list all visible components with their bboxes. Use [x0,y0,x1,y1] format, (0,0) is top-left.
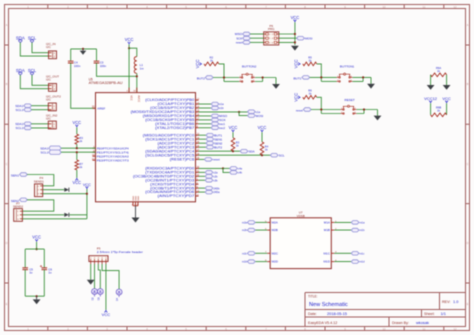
wire SDA to I2C_IN [20,43,48,57]
svg-text:osc2: osc2 [219,126,225,130]
net label 24Db [205,186,213,190]
wire PB7 [199,127,212,129]
net label 24Da [205,190,213,194]
svg-text:MOSI: MOSI [256,114,264,118]
wire P6 pin6 [279,41,295,43]
net label c1a [211,102,219,106]
svg-text:1u: 1u [29,271,33,275]
wire m2d [255,261,267,263]
net label osc1 [211,122,219,126]
wire BUT2 row1 [213,77,239,79]
wire P6 pin4 MOSI [279,37,297,39]
node SCL1 pullup [76,151,78,153]
svg-text:VCC: VCC [291,15,300,20]
svg-text:D: D [5,241,7,245]
svg-text:New Schematic: New Schematic [309,302,348,308]
wire VCC to R4 [261,132,263,142]
wire VCC to R3b [232,132,234,138]
svg-text:VCC: VCC [293,59,298,68]
wire BUT2 [199,146,207,148]
wire PB2 [199,107,212,109]
node PB3 [238,111,240,113]
pins GND (3,5,21) [132,196,141,207]
svg-text:M1C: M1C [324,251,331,255]
svg-text:I2C: I2C [46,78,52,82]
net label reset [204,158,212,162]
pin M2A (5) [265,221,278,225]
wire SCL1 to R7 [76,152,78,160]
pin PC2 (25) [158,141,200,145]
svg-text:M1B: M1B [324,228,330,232]
pin PC6 (29) [170,157,200,161]
svg-text:(XTAL2/TOSC2)PB7: (XTAL2/TOSC2)PB7 [155,126,194,130]
pin PB6 (7) [155,122,198,126]
node BUT2 [223,76,225,78]
net label c4a [230,167,238,171]
net label m1b [351,228,359,232]
svg-text:11: 11 [423,327,426,331]
svg-text:BUTTON1: BUTTON1 [340,64,355,68]
net label c3b [205,178,213,182]
wire SEN2 [199,142,207,144]
wire SDA1 to I2C_IN2 [31,123,48,125]
connector P5 header [89,247,143,264]
pin PE1 (6) [93,150,129,154]
pin PB1 (13) [158,102,200,106]
svg-text:c4b: c4b [238,172,243,175]
svg-text:10: 10 [382,327,386,331]
svg-text:1.0: 1.0 [453,299,459,304]
wire R3 to SDA1 [76,144,78,148]
svg-text:SCL: SCL [279,153,285,157]
wire VCC to R3 [76,127,78,134]
svg-text:VCC: VCC [129,95,133,101]
svg-text:AREF: AREF [97,107,105,111]
node SDA1 pullup [76,147,78,149]
wire PB5 [199,119,212,121]
pin PE0 (3) [93,146,129,150]
resistor R3b vertical [231,138,235,151]
ground P6 [291,46,299,51]
svg-text:D3: D3 [97,297,100,301]
svg-text:SEND2: SEND2 [13,205,23,209]
svg-text:24Da: 24Da [214,191,221,194]
wire PD6 [199,191,206,193]
pin PD3 (1) [145,178,198,182]
wire m1c [334,252,351,254]
ground R6A right [443,85,451,90]
connector I2C_IN2 [46,113,58,129]
connector I2C_IN [46,42,57,59]
svg-text:SEND1: SEND1 [34,179,44,183]
node BUTTON2 right [262,76,264,78]
svg-text:BUT1: BUT1 [293,77,301,81]
node BUTTON1 right [362,76,364,78]
wire SEND2 pin2 to diode [22,214,64,216]
svg-text:Drawn By:: Drawn By: [392,321,409,325]
svg-text:wkosak: wkosak [416,320,429,325]
wire BUT1 row1 [310,76,337,78]
svg-text:M1A: M1A [324,221,330,225]
node PD0 [222,167,224,169]
svg-text:VCC: VCC [195,59,200,68]
power flag VCC P5 [105,310,108,313]
svg-text:VCC: VCC [229,125,238,130]
svg-text:VCC: VCC [32,235,41,240]
svg-text:(AIN1/PTCXY)PD7: (AIN1/PTCXY)PD7 [158,194,195,198]
pin PB2 (14) [150,106,200,110]
wire SEN1 [27,175,54,186]
net label MOSI P6 [297,36,305,40]
wire to m1a label [239,111,247,113]
wire P5 pin2 [94,264,96,289]
connector P6 PRG [264,24,279,45]
wire P5 pin3 [98,264,100,289]
pin M2B (6) [265,228,278,232]
svg-text:m1b: m1b [360,229,365,232]
svg-text:I2C: I2C [46,116,52,120]
svg-text:EasyEDA V5.4.12: EasyEDA V5.4.12 [308,321,337,325]
net label SDA [240,149,248,153]
wire P6 pin2 [279,33,295,35]
node top bus [82,48,84,50]
svg-text:M2D: M2D [272,260,279,264]
svg-text:osc1: osc1 [219,122,225,126]
wire P6 VCC/GND vertical [294,22,296,45]
wire R6A left lead [430,75,432,85]
wire PB6 [199,123,212,125]
wire C3 to AVCC node [97,63,137,76]
resistor R4 vertical [260,142,264,155]
net label BUT1 [206,133,214,137]
svg-text:C: C [5,162,7,166]
wire BUT2 row2 [224,81,239,83]
capacitor C5 [22,267,28,269]
node SCL pullup [261,154,263,156]
pin PE3 (22) [92,158,129,162]
wire reset row2 [321,113,340,115]
svg-text:PRG: PRG [268,27,275,31]
wire VCC stub [36,242,38,249]
wire SCL1 to I2C_OUT2 [31,109,48,111]
svg-text:reset: reset [213,158,220,162]
svg-text:12: 12 [197,98,200,101]
wire m1d [334,261,351,263]
resistor R5 [303,62,317,66]
svg-text:BUT2: BUT2 [197,77,205,81]
svg-text:100n: 100n [100,64,107,68]
ground MCU [135,206,137,218]
svg-text:REV:: REV: [442,300,450,304]
net label MISO [211,114,219,118]
wire SDA to I2C_OUT [20,75,48,89]
svg-text:I2C: I2C [46,98,52,102]
wire top cap bus [71,48,97,50]
wire VCC to L1 [129,48,137,56]
svg-text:A: A [467,23,469,27]
svg-text:SCL1: SCL1 [16,108,24,112]
LED D4 [116,289,122,301]
wire diode2 out [70,214,87,216]
net label c1b [211,106,219,110]
LED D2 [92,289,98,301]
node RESET right [363,108,365,110]
pin PC3 (26) [158,145,200,149]
wire R6 to reset node [317,97,322,113]
net label m1c [351,252,359,256]
wire R6B left lead [430,103,432,115]
resistor R7 vertical [75,160,79,170]
net label c2a [205,171,213,175]
wire to c4b [223,168,230,172]
pin PB0 (12) [145,98,200,102]
svg-text:VCC: VCC [72,180,81,185]
svg-text:VCC: VCC [293,93,298,102]
title block [305,293,466,327]
svg-text:E: E [467,302,469,306]
pin M1B (2) [324,228,337,232]
svg-text:VCC: VCC [258,125,267,130]
wire BUT1 [199,134,207,136]
wire C6 lower [43,270,45,297]
pin PC1 (24) [145,137,200,141]
svg-text:BUTTON2: BUTTON2 [242,64,257,68]
svg-text:m1d: m1d [360,261,365,264]
ground BUTTON1 [367,84,375,89]
connector I2C_OUT [46,75,59,92]
wire PD5 [199,187,206,189]
ground RESET [374,116,382,121]
svg-text:VCC: VCC [72,120,81,125]
svg-text:SEN1: SEN1 [11,173,19,177]
svg-text:reset: reset [296,109,303,113]
svg-text:1/1: 1/1 [441,311,446,316]
svg-text:RESET: RESET [345,98,355,102]
svg-text:VCC: VCC [125,37,134,42]
wire SCL row [199,154,271,156]
svg-text:2018-05-15: 2018-05-15 [327,311,347,316]
connector I2C_OUT2 [46,95,61,112]
net label SEN2 [206,141,214,145]
pin PD2 (32) [133,174,200,178]
wire R6B right lead [446,103,448,115]
wire C6 upper [43,249,45,267]
connector P4 SEND1 [34,176,44,196]
pin M1D (4) [324,260,338,264]
pin PC4 (27) [145,149,200,153]
pin M1C (3) [324,251,338,255]
svg-text:VDSB: VDSB [297,214,305,218]
wire SCL1 to I2C_IN2 [31,127,48,129]
wire cap bottom bus [25,295,44,297]
svg-text:BUT2: BUT2 [214,145,222,149]
wire BUTTON2 right [255,78,276,85]
svg-text:M2A: M2A [272,221,278,225]
svg-text:E: E [6,302,8,306]
svg-text:24Db: 24Db [214,187,221,190]
svg-text:B: B [6,82,8,86]
svg-text:c1b: c1b [219,106,224,110]
svg-text:B: B [467,82,469,86]
svg-text:AVCC: AVCC [137,95,141,102]
pin AVCC top (18) [136,88,138,93]
connector SEND2 [13,202,23,222]
pin PB5 (17) [145,118,200,122]
wire reset [250,41,264,43]
LED D3 [97,289,103,301]
svg-text:D4: D4 [116,297,119,301]
svg-text:SCK: SCK [219,118,226,122]
wire SEND1 pin2 to diode [43,189,65,191]
wire m2b [255,229,267,231]
svg-text:m1a: m1a [360,222,365,225]
pin PD7 (11) [158,194,200,198]
diode D SEND1 [64,188,69,192]
node C5C6 bottom [36,295,38,297]
wire BUT1 row2 [321,80,336,82]
svg-text:D: D [466,241,468,245]
svg-text:SCL1: SCL1 [41,151,49,155]
pin M1A (1) [324,221,337,225]
wire C5 lower [24,270,26,297]
wire m2c [255,252,267,254]
pin M2C (7) [265,251,279,255]
pin PC5 (28) [145,153,200,157]
wire to c4a [223,167,230,169]
pin PC0 (23) [143,133,200,137]
svg-text:D2: D2 [92,297,95,301]
wire m1b [334,229,351,231]
power flag VCC below R7 [75,178,78,181]
wire C3 upper [96,49,98,61]
svg-text:m2b: m2b [242,229,247,232]
wire R6A right lead [446,75,448,85]
svg-text:ATMEGA328PB-AU: ATMEGA328PB-AU [89,81,124,85]
pin PD0 (30) [145,166,200,170]
svg-text:reset: reset [236,41,243,45]
node BUT1 [320,76,322,78]
pin VCC top (4) [128,88,130,93]
net label c2b [205,175,213,179]
svg-text:c2a: c2a [214,171,219,174]
pin PD4 (2) [150,182,198,186]
node SEND1 [86,193,88,195]
net label SEN1 [206,137,214,141]
node SDA pullup [232,150,234,152]
svg-text:M1D: M1D [324,260,331,264]
pin PD6 (10) [145,190,200,194]
svg-text:11: 11 [197,194,200,197]
pin PE2 (19) [92,154,129,158]
node L1 bottom [136,75,138,77]
wire PB4 [199,115,212,117]
wire SCL1 row [61,151,95,153]
pin PB3 (15) [131,110,200,114]
inductor L1 [134,57,144,74]
svg-text:SCL1: SCL1 [16,126,24,130]
svg-text:M2C: M2C [272,251,279,255]
capacitor C6 [42,267,48,269]
svg-text:12: 12 [453,327,457,331]
svg-text:12: 12 [453,5,457,9]
wire reset PC6 [199,158,205,160]
svg-text:m2c: m2c [242,252,247,255]
wire PD2 [199,175,206,177]
ground R6A left [427,85,435,90]
net label c4b [230,171,238,175]
wire R5 to BUT1 node [317,64,322,82]
net label m1a [248,110,256,114]
svg-text:10: 10 [382,5,386,9]
svg-text:m1c: m1c [360,252,365,255]
pin M2D (8) [265,260,279,264]
wire SDA1 row [61,147,95,149]
pin PB7 (8) [155,125,198,129]
wire L1 to AVCC pin [136,73,138,92]
svg-text:100n: 100n [74,64,81,68]
svg-text:Sheet:: Sheet: [424,312,435,316]
svg-text:Date:: Date: [308,312,317,316]
wire C4 upper [70,49,72,61]
wire VCC stub top [128,44,130,48]
svg-text:SDA: SDA [249,149,255,153]
svg-text:1m: 1m [140,66,145,70]
net label SCL [270,153,278,157]
svg-text:c3b: c3b [214,179,219,182]
capacitor C4 [68,60,74,62]
wire to MOSI label [239,112,247,116]
svg-text:VCC12: VCC12 [424,96,438,101]
svg-text:VCC: VCC [102,312,111,317]
wire PD3 [199,179,206,181]
resistor R2 [204,62,219,66]
svg-text:A: A [6,23,8,27]
wire SEND1 pin3 [43,193,87,195]
svg-text:VCC: VCC [83,183,91,187]
wire VCC to MCU VCC pin [128,48,130,92]
wire P5 pin4 [102,264,119,289]
svg-text:I2C: I2C [46,45,52,49]
pin PD1 (31) [145,170,200,174]
wire SCL to I2C_IN [32,43,49,53]
wire cap top bus [25,248,44,250]
ground BUTTON2 [272,84,280,89]
net label m1a [351,221,359,225]
wire PD1 [199,171,206,173]
wire PB1 [199,103,212,105]
wire PD0 [199,167,224,169]
wire SCK [250,37,264,39]
svg-text:PE3/PTCXY/ADC7/T3: PE3/PTCXY/ADC7/T3 [97,158,129,162]
ground C5C6 [36,296,38,299]
svg-text:21: 21 [136,204,139,206]
svg-text:(RESET)PC6: (RESET)PC6 [170,158,195,162]
svg-text:m2d: m2d [242,261,247,264]
svg-text:m2a: m2a [242,222,247,225]
pin PD5 (9) [150,186,198,190]
svg-text:2.54mm 1*5p Female header: 2.54mm 1*5p Female header [97,250,143,254]
svg-text:c4a: c4a [238,168,243,171]
wire SCL to I2C_OUT [32,75,49,85]
wire PB3 MOSI [199,111,240,113]
diode D SEND2 [64,213,69,217]
capacitor C3 [94,60,100,62]
svg-text:c2b: c2b [214,175,219,178]
node VCC top [128,47,130,49]
svg-text:GND: GND [138,196,140,201]
svg-text:c1a: c1a [219,102,224,106]
net label BUT2 [206,145,214,149]
